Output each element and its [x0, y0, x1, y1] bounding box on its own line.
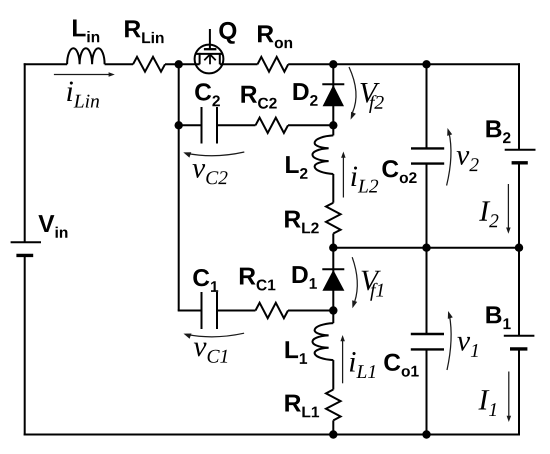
label RC2	[241, 86, 276, 109]
label Vin	[38, 215, 67, 238]
label C2	[195, 83, 220, 106]
node Ron-D2 junction	[329, 60, 337, 68]
resistor RC1	[256, 303, 289, 318]
wire bottom rail	[24, 434, 520, 436]
node D2-L2	[329, 121, 337, 129]
capacitor Co1	[411, 334, 444, 435]
label B1	[486, 306, 510, 329]
wire top rail Lin to RLin	[105, 63, 133, 65]
capacitor C1	[202, 292, 256, 329]
capacitor C2	[202, 107, 256, 144]
node mid rail Co2	[422, 244, 430, 252]
current arrow iLin	[54, 72, 115, 77]
wire left side upper	[24, 63, 26, 242]
label Co1	[384, 354, 418, 377]
label L2	[286, 156, 307, 179]
label iLin	[67, 82, 99, 108]
wire mid rail	[333, 247, 519, 249]
label vC1	[194, 343, 227, 363]
label vC2	[193, 164, 228, 184]
wire RC2 to node	[288, 124, 333, 126]
label I2	[479, 201, 498, 227]
wire top rail left of Lin	[24, 63, 67, 65]
inductor Lin	[67, 48, 105, 64]
label RC1	[240, 268, 276, 291]
resistor RC2	[256, 118, 289, 133]
label v1	[457, 337, 477, 357]
resistor RL2	[326, 203, 341, 234]
voltage arrow vC1	[184, 333, 245, 339]
resistor RL1	[326, 390, 341, 421]
voltage arrow v2	[447, 128, 453, 186]
wire Co2 top	[426, 64, 428, 148]
wire mid to D1	[332, 248, 334, 270]
voltage arrow Vf2	[349, 67, 356, 120]
label v2	[457, 151, 479, 171]
label RL2	[285, 211, 319, 234]
label RLin	[125, 20, 163, 43]
battery B1	[504, 336, 535, 349]
current arrow iL1	[340, 335, 345, 383]
node mid rail right	[515, 244, 523, 252]
battery Vin	[11, 242, 41, 255]
wire L2 to RL2	[332, 174, 334, 203]
label iL1	[350, 352, 375, 378]
label Q	[219, 22, 236, 44]
wire top to D2	[332, 64, 334, 84]
wire top rail RLin to Q	[165, 63, 200, 65]
wire RL1 to bottom	[332, 420, 334, 434]
diode D1	[322, 269, 344, 310]
node RLin-Q junction	[175, 60, 183, 68]
wire left side lower	[24, 255, 26, 435]
wire top rail Q to Ron	[220, 63, 258, 65]
resistor Ron	[258, 57, 289, 72]
wire XL corner to C1	[178, 310, 202, 312]
node C2 branch	[175, 121, 183, 129]
wire node to L1	[332, 311, 334, 324]
wire XL column	[178, 64, 180, 310]
label iL2	[351, 167, 378, 193]
label Vf2	[360, 83, 383, 113]
voltage arrow v1	[447, 311, 453, 370]
label Co2	[382, 160, 416, 183]
label D1	[293, 266, 317, 289]
label B2	[486, 120, 510, 143]
node Co2 top	[422, 60, 430, 68]
label Vf1	[362, 271, 384, 301]
label D2	[294, 83, 318, 106]
wire Co1 top	[426, 248, 428, 334]
diode D2	[322, 84, 344, 125]
node bottom rail left	[329, 430, 337, 438]
wire node to L2	[332, 125, 334, 135]
voltage arrow Vf1	[352, 257, 357, 308]
current arrow I1	[507, 372, 512, 423]
wire RC1 to node	[288, 310, 333, 312]
wire node to C2	[179, 124, 202, 126]
wire L1 to RL1	[332, 360, 334, 389]
battery B2	[505, 150, 536, 163]
resistor RLin	[133, 57, 165, 72]
label L1	[286, 341, 308, 364]
wire top rail Ron to right corner	[288, 63, 520, 65]
node bottom rail Co1	[422, 430, 430, 438]
label Ron	[258, 25, 292, 48]
label C1	[193, 269, 218, 292]
wire RL2 to mid rail	[332, 234, 334, 248]
inductor L2	[312, 135, 333, 174]
node D1-L1	[329, 306, 337, 314]
current arrow iL2	[341, 152, 346, 198]
transistor Q (MOSFET)	[195, 29, 224, 73]
wire right side lower	[518, 349, 520, 436]
label Lin	[73, 20, 99, 43]
wire right side upper	[518, 63, 520, 150]
label RL1	[285, 395, 319, 418]
node mid rail left	[329, 244, 337, 252]
label I1	[478, 390, 496, 416]
voltage arrow vC2	[183, 152, 244, 158]
inductor L1	[312, 323, 333, 360]
capacitor Co2	[411, 148, 444, 247]
wire right side middle	[518, 163, 520, 336]
current arrow I2	[506, 184, 511, 234]
